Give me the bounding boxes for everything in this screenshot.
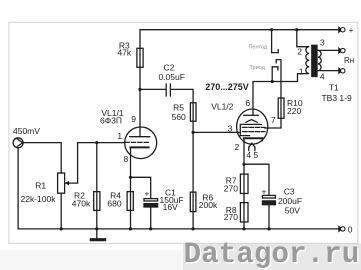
svg-text:+: + [144, 189, 149, 199]
svg-text:47k: 47k [117, 47, 131, 57]
svg-text:5: 5 [253, 150, 258, 160]
svg-text:VL1/2: VL1/2 [211, 101, 233, 111]
svg-text:R1: R1 [35, 180, 46, 190]
svg-text:7: 7 [271, 115, 276, 125]
svg-text:1: 1 [117, 131, 122, 141]
svg-text:6: 6 [245, 98, 250, 108]
svg-text:+: + [349, 25, 354, 35]
svg-text:8: 8 [124, 154, 129, 164]
svg-text:560: 560 [172, 112, 186, 122]
svg-text:Datagor.ru: Datagor.ru [184, 238, 360, 270]
svg-text:R5: R5 [173, 102, 184, 112]
svg-text:22k-100k: 22k-100k [21, 194, 57, 204]
svg-text:270...275V: 270...275V [205, 82, 249, 92]
svg-text:470k: 470k [72, 198, 91, 208]
svg-text:Rн: Rн [344, 56, 354, 65]
svg-text:ТВ3 1-9: ТВ3 1-9 [321, 93, 352, 103]
svg-text:450mV: 450mV [13, 126, 40, 136]
svg-text:50V: 50V [285, 205, 300, 215]
svg-text:2: 2 [235, 142, 240, 152]
svg-text:200k: 200k [199, 200, 218, 210]
svg-text:T1: T1 [329, 83, 339, 93]
svg-text:220: 220 [287, 106, 301, 116]
svg-text:16V: 16V [163, 202, 178, 212]
svg-text:680: 680 [107, 198, 121, 208]
svg-text:1: 1 [299, 67, 304, 77]
svg-text:2: 2 [297, 46, 302, 56]
svg-text:270: 270 [224, 184, 238, 194]
svg-text:9: 9 [131, 114, 136, 124]
svg-text:3: 3 [320, 38, 325, 48]
svg-text:3: 3 [228, 123, 233, 133]
svg-text:0: 0 [348, 225, 353, 235]
svg-text:200uF: 200uF [278, 196, 302, 206]
svg-text:+: + [262, 186, 267, 196]
svg-text:6Ф3П: 6Ф3П [100, 116, 122, 126]
svg-text:4: 4 [246, 150, 251, 160]
svg-text:Пентод: Пентод [248, 44, 267, 50]
svg-text:Триод: Триод [249, 65, 265, 71]
svg-text:0.05uF: 0.05uF [158, 72, 184, 82]
svg-text:4: 4 [320, 71, 325, 81]
svg-text:270: 270 [224, 212, 238, 222]
